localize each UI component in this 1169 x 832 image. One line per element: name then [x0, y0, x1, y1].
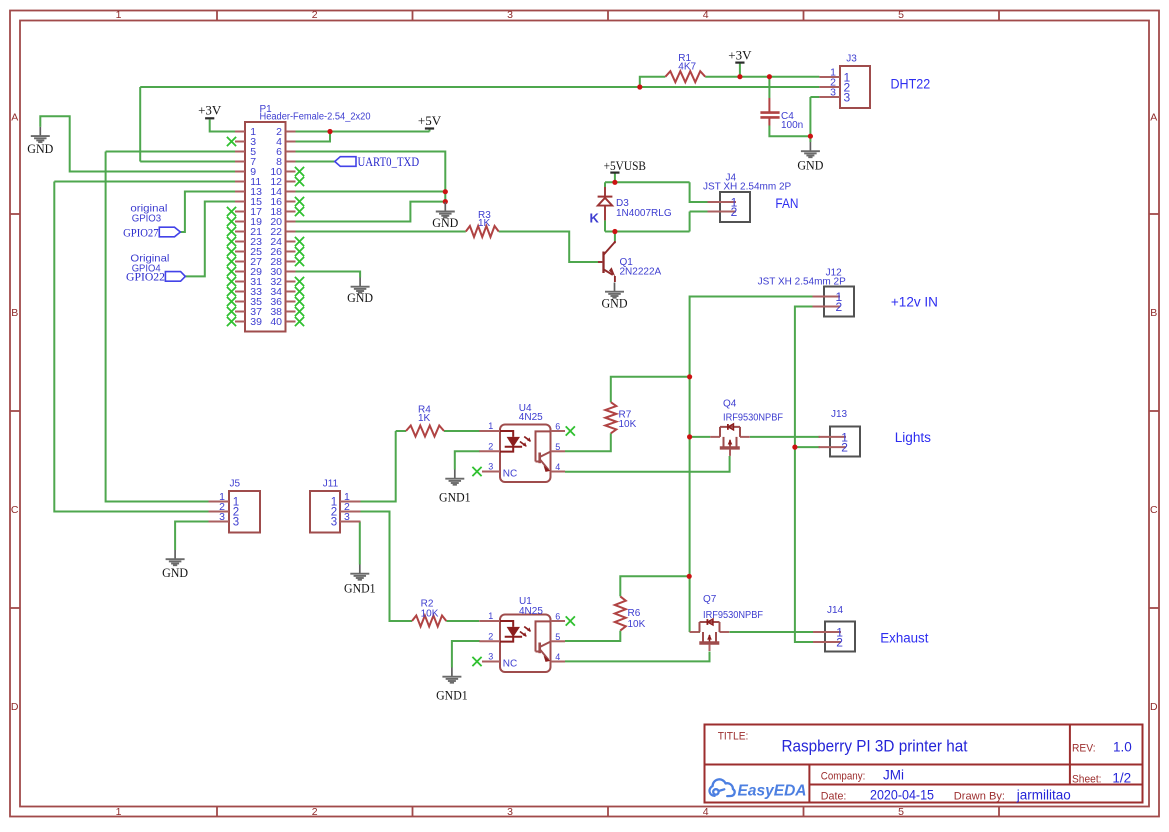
svg-text:2: 2: [312, 9, 318, 21]
svg-text:3: 3: [830, 87, 836, 99]
svg-text:Raspberry PI 3D printer hat: Raspberry PI 3D printer hat: [782, 738, 968, 756]
svg-text:4N25: 4N25: [519, 412, 543, 423]
svg-text:Company:: Company:: [821, 771, 866, 783]
svg-text:+5V: +5V: [418, 113, 442, 128]
svg-text:4: 4: [555, 462, 560, 472]
svg-text:GND: GND: [602, 296, 628, 311]
svg-text:+12v IN: +12v IN: [891, 294, 938, 310]
svg-text:B: B: [1150, 307, 1157, 319]
svg-text:4K7: 4K7: [678, 62, 696, 73]
svg-text:1/2: 1/2: [1112, 770, 1131, 785]
svg-text:GND1: GND1: [344, 582, 376, 596]
svg-text:4: 4: [555, 652, 560, 662]
svg-text:UART0_TXD: UART0_TXD: [358, 155, 420, 169]
svg-text:1: 1: [116, 806, 122, 818]
svg-text:10K: 10K: [421, 609, 439, 620]
svg-text:NC: NC: [503, 469, 517, 480]
svg-text:3: 3: [488, 462, 493, 472]
svg-text:GPIO3: GPIO3: [132, 213, 162, 225]
svg-text:6: 6: [555, 422, 560, 432]
svg-text:JMi: JMi: [883, 768, 904, 783]
svg-text:K: K: [590, 211, 600, 226]
svg-text:DHT22: DHT22: [891, 76, 931, 92]
svg-text:3: 3: [844, 90, 851, 104]
svg-text:JST XH 2.54mm 2P: JST XH 2.54mm 2P: [703, 182, 792, 193]
svg-text:GPIO4: GPIO4: [132, 263, 161, 275]
svg-text:J13: J13: [831, 409, 848, 420]
svg-text:FAN: FAN: [775, 196, 798, 212]
svg-text:6: 6: [555, 612, 560, 622]
svg-text:J11: J11: [323, 479, 339, 490]
svg-text:GND: GND: [432, 215, 458, 230]
svg-text:10K: 10K: [619, 419, 637, 430]
svg-text:100n: 100n: [781, 120, 803, 131]
svg-text:2: 2: [488, 632, 493, 642]
svg-text:5: 5: [898, 806, 904, 818]
svg-text:GND1: GND1: [439, 491, 471, 505]
svg-text:A: A: [1150, 112, 1157, 124]
svg-text:10K: 10K: [628, 619, 646, 630]
svg-text:2: 2: [731, 205, 738, 219]
svg-text:1.0: 1.0: [1113, 740, 1132, 755]
svg-text:2: 2: [836, 636, 843, 650]
svg-text:+3V: +3V: [728, 48, 752, 63]
svg-text:39: 39: [250, 316, 262, 328]
svg-text:3: 3: [219, 511, 225, 523]
svg-text:2N2222A: 2N2222A: [620, 267, 662, 278]
svg-text:1: 1: [488, 611, 493, 621]
svg-text:Drawn By:: Drawn By:: [954, 791, 1005, 803]
svg-text:GND1: GND1: [436, 689, 468, 703]
svg-text:GND: GND: [347, 290, 373, 305]
svg-text:JST XH 2.54mm 2P: JST XH 2.54mm 2P: [758, 277, 847, 288]
svg-text:C: C: [1150, 504, 1158, 516]
svg-text:C: C: [11, 504, 19, 516]
svg-text:4: 4: [703, 9, 709, 21]
svg-text:Header-Female-2.54_2x20: Header-Female-2.54_2x20: [260, 112, 371, 123]
svg-text:1: 1: [488, 421, 493, 431]
svg-text:1K: 1K: [478, 218, 491, 229]
svg-text:J14: J14: [827, 605, 844, 616]
svg-text:Exhaust: Exhaust: [880, 630, 928, 646]
svg-text:GND: GND: [797, 157, 823, 172]
svg-text:5: 5: [555, 632, 560, 642]
svg-text:EasyEDA: EasyEDA: [738, 783, 807, 800]
svg-text:2: 2: [488, 442, 493, 452]
svg-text:Sheet:: Sheet:: [1072, 773, 1102, 785]
svg-text:J5: J5: [230, 479, 241, 490]
svg-text:GND: GND: [162, 565, 188, 580]
svg-text:R6: R6: [628, 608, 641, 619]
svg-text:J3: J3: [846, 54, 857, 65]
svg-text:3: 3: [507, 9, 513, 21]
svg-text:jarmilitao: jarmilitao: [1016, 788, 1071, 803]
svg-text:2: 2: [836, 300, 843, 314]
svg-text:2: 2: [841, 441, 848, 455]
svg-text:1K: 1K: [418, 413, 431, 424]
svg-text:3: 3: [488, 652, 493, 662]
svg-text:2020-04-15: 2020-04-15: [870, 788, 934, 803]
svg-text:IRF9530NPBF: IRF9530NPBF: [723, 412, 783, 423]
svg-text:Lights: Lights: [895, 430, 931, 446]
svg-text:3: 3: [507, 806, 513, 818]
svg-text:3: 3: [344, 511, 350, 523]
svg-text:3: 3: [233, 517, 239, 529]
svg-text:5: 5: [898, 9, 904, 21]
svg-text:Q7: Q7: [703, 594, 717, 605]
svg-text:TITLE:: TITLE:: [718, 731, 749, 743]
svg-text:D: D: [11, 701, 19, 713]
svg-text:1N4007RLG: 1N4007RLG: [616, 208, 672, 219]
svg-text:D: D: [1150, 701, 1158, 713]
svg-text:Q4: Q4: [723, 399, 737, 410]
svg-text:40: 40: [270, 316, 282, 328]
svg-text:3: 3: [331, 517, 337, 529]
svg-text:4: 4: [703, 806, 709, 818]
svg-text:NC: NC: [503, 659, 517, 670]
svg-text:+5VUSB: +5VUSB: [604, 158, 647, 173]
svg-text:Date:: Date:: [821, 791, 847, 803]
svg-text:IRF9530NPBF: IRF9530NPBF: [703, 610, 763, 621]
svg-text:+3V: +3V: [198, 103, 222, 118]
svg-text:1: 1: [116, 9, 122, 21]
svg-text:A: A: [11, 112, 18, 124]
svg-text:4N25: 4N25: [519, 606, 543, 617]
svg-text:B: B: [11, 307, 18, 319]
svg-text:2: 2: [312, 806, 318, 818]
svg-text:REV:: REV:: [1072, 743, 1096, 755]
svg-text:GPIO27: GPIO27: [123, 225, 159, 239]
svg-text:GND: GND: [27, 141, 53, 156]
svg-text:5: 5: [555, 442, 560, 452]
